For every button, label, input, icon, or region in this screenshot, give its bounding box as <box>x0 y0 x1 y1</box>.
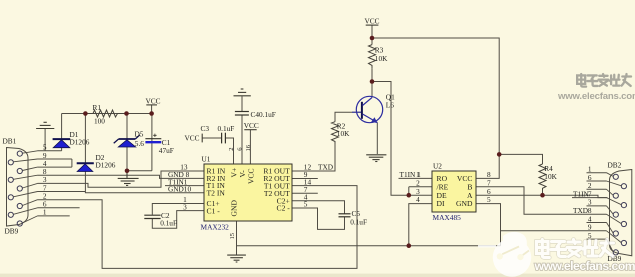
svg-text:10K: 10K <box>337 129 350 138</box>
wire DB2 row3 stub <box>587 205 607 207</box>
wire C1 riser <box>151 114 153 171</box>
resistor R3 10K <box>369 45 376 69</box>
svg-text:R1: R1 <box>93 103 102 112</box>
wire VCC3 stem to U1 pin16 <box>249 130 251 164</box>
U1 top rotated labels V+ V- VCC <box>229 168 255 184</box>
svg-text:MAX485: MAX485 <box>433 213 462 222</box>
wire DB2 row1 stub <box>587 172 607 174</box>
svg-text:VCC: VCC <box>365 17 380 26</box>
svg-text:10K: 10K <box>375 54 388 63</box>
wire RE-DE tie <box>408 187 410 195</box>
svg-text:GND: GND <box>456 199 473 208</box>
connector DB2 pin circles <box>613 174 626 255</box>
svg-text:D1206: D1206 <box>96 160 116 169</box>
wire tie row9-row4 <box>71 159 73 167</box>
wire U2 pin8 VCC riser <box>476 154 499 178</box>
svg-text:4: 4 <box>416 195 420 204</box>
svg-text:15: 15 <box>229 232 236 239</box>
wire D1 riser to top rail <box>61 114 63 151</box>
wire DB2 row7 label segment <box>572 197 608 199</box>
svg-text:0.1uF: 0.1uF <box>350 218 367 227</box>
wire R4 bottom to A row <box>542 190 544 195</box>
svg-text:C3: C3 <box>201 124 210 133</box>
capacitor C4 0.1uF <box>235 112 249 116</box>
connector DB1 pin stubs <box>13 151 37 223</box>
wire U1 pin15 stem to ground <box>236 221 238 255</box>
watermark elecfans bottom-right <box>478 232 635 277</box>
wire DB1 row7 to D2 riser <box>38 191 86 193</box>
wire ground riser from row5 <box>44 129 46 151</box>
ground D (Q1 emitter) <box>366 155 386 162</box>
svg-text:3: 3 <box>183 202 187 211</box>
wire DB1 row3 to U1 pin13 <box>38 171 205 187</box>
watermark CJK text 电子发烧友 <box>537 240 614 258</box>
wire ground B stem to C4 <box>241 96 243 111</box>
ground A (inverted, near DB1 pin5) <box>36 122 54 128</box>
junction dots (Q1/VCC/GND net) <box>370 36 545 248</box>
wire U2 pin6 A to DB2 pin7 <box>476 195 607 197</box>
wire DB1 row6 stub <box>38 207 80 209</box>
capacitor C5 0.1uF <box>339 214 351 217</box>
svg-text:5.6: 5.6 <box>135 139 144 148</box>
transistor Q1 <box>352 96 383 123</box>
bottom edge shading <box>0 274 635 277</box>
wire C2 bottom loop to U1 pin3 <box>152 211 204 229</box>
resistor R4 10K <box>539 164 546 190</box>
U1 right pin numbers <box>304 163 312 209</box>
svg-text:www.elecfans.com: www.elecfans.com <box>557 91 635 102</box>
svg-text:MAX232: MAX232 <box>201 223 230 232</box>
wire U1 pin12 TXD to R2 to Q1 base <box>292 144 335 172</box>
wire U1 pin1 row to C2 <box>152 204 204 215</box>
wire DB1 row4 <box>38 166 72 168</box>
svg-text:100: 100 <box>94 117 105 126</box>
svg-text:T1IN 1: T1IN 1 <box>400 170 422 179</box>
wire DB2 row2 stub <box>587 188 607 190</box>
svg-text:0.1uF: 0.1uF <box>160 219 177 228</box>
svg-text:D1206: D1206 <box>70 137 90 146</box>
IC U1 MAX232 body <box>204 164 292 221</box>
svg-text:VCC: VCC <box>244 121 259 130</box>
connector DB2 pin stubs <box>607 173 622 252</box>
wire C4 to U1 pin6 (V-) <box>241 115 243 164</box>
watermark logo disc <box>493 238 531 276</box>
svg-text:DB1: DB1 <box>3 137 17 146</box>
wire DB1 row8 to U1 pin8 (GND net) <box>38 175 205 178</box>
svg-text:GND10: GND10 <box>168 185 191 194</box>
U1 left pin labels <box>207 167 226 216</box>
VCC symbol 1 (top rail) <box>146 104 157 106</box>
wire U2 pin7 B to DB2 pin8 <box>476 187 607 214</box>
diode D2 (D1206) <box>77 163 94 171</box>
svg-text:1: 1 <box>43 208 47 217</box>
wire DB1 row5 to D1 anode <box>38 150 62 152</box>
U2 right pin numbers <box>487 170 491 204</box>
connector DB1 body <box>7 148 29 227</box>
DB2 pin numbers <box>588 165 592 240</box>
svg-text:47uF: 47uF <box>159 146 174 155</box>
svg-text:GND: GND <box>230 200 239 217</box>
wire DB1 row2 to bottom bus to U1 pin14 <box>38 186 358 269</box>
U2 left pin numbers <box>416 170 420 204</box>
svg-text:U2: U2 <box>433 161 442 170</box>
svg-text:L6: L6 <box>386 101 394 110</box>
VCC symbol 2 (above R3) <box>366 24 379 26</box>
wire C5 bottom loop to U1 pin5 <box>292 208 345 229</box>
wire DB2 row4 stub <box>587 222 607 224</box>
wire U1 pin9 stub <box>292 178 318 180</box>
svg-text:10K: 10K <box>544 172 557 181</box>
wire collector branch to U2 DE/RE <box>372 82 432 196</box>
connector DB2 body <box>610 170 632 256</box>
svg-text:V+: V+ <box>229 168 238 178</box>
wire Q1 emitter to ground <box>376 123 378 155</box>
svg-text:www.elecfans.com: www.elecfans.com <box>534 259 635 273</box>
svg-text:C40.1uF: C40.1uF <box>251 110 276 119</box>
svg-text:C1 -: C1 - <box>207 206 221 215</box>
watermark CJK text shadow <box>537 240 614 258</box>
resistor R2 10K <box>332 122 339 144</box>
U2 left pin labels <box>437 174 449 208</box>
capacitor C3 0.1uF <box>222 133 226 144</box>
svg-text:DB2: DB2 <box>608 161 622 170</box>
wire GND riser to DB2 pin9 <box>501 230 607 232</box>
capacitor C2 0.1uF <box>144 215 160 218</box>
zener diode D5 (5.6V) <box>114 135 140 147</box>
U1 top pin numbers rotated 2 6 16 <box>228 144 252 151</box>
wire R3 bottom to Q1 collector <box>371 69 373 98</box>
svg-text:U1: U1 <box>202 155 211 164</box>
wire VCC2 stem to R3 <box>371 25 373 44</box>
IC U2 MAX485 body <box>432 171 476 212</box>
wire U1 pin4 to C5 top <box>292 201 345 214</box>
wire D2 riser and GND10 wire to U1 pin10 <box>85 114 204 193</box>
wire C3 to U1 pin2 (V+) <box>226 138 234 164</box>
junction dots top rail <box>83 111 154 173</box>
diode D1 (D1206) <box>53 139 71 148</box>
svg-text:D5: D5 <box>135 130 144 139</box>
wire U2 pin4 DI to GND bus <box>409 204 432 246</box>
svg-text:0.1uF: 0.1uF <box>218 124 235 133</box>
connector DB1 pin circles <box>8 151 22 226</box>
svg-text:T1IN: T1IN <box>573 189 590 198</box>
svg-text:5: 5 <box>487 195 491 204</box>
wire D5 riser <box>126 114 128 171</box>
wire DB2 row5 stub <box>587 238 607 240</box>
wire VCC1 stem <box>151 105 153 113</box>
wire U1 pin7 stub <box>292 192 318 194</box>
DB1 pin numbers <box>43 143 47 217</box>
svg-text:VCC: VCC <box>146 96 161 105</box>
wire T1IN stub U2 pin1 <box>399 177 433 179</box>
svg-text:C2 -: C2 - <box>277 204 291 213</box>
wire U2 pin2 RE row <box>409 186 432 188</box>
resistor R1 <box>85 110 126 117</box>
wire DB2 row6 stub <box>587 180 607 182</box>
ground (mid, D5/C1) <box>118 171 139 186</box>
U1 right pin labels <box>263 167 290 213</box>
wire VCC to R4 top <box>499 154 542 164</box>
wire U2 pin5 GND riser <box>476 204 501 246</box>
capacitor C1 47uF polarized <box>145 134 161 143</box>
wire ground link D5-C1 <box>127 170 152 172</box>
wire T1IN stub U1 pin11 <box>165 185 204 187</box>
watermark top-right CJK 电子发烧友 (gray) <box>577 74 631 87</box>
svg-text:T2 IN: T2 IN <box>207 188 226 197</box>
wire DB1 row1 stub <box>38 215 70 217</box>
wire top rail <box>62 113 152 115</box>
watermark logo arm <box>478 245 496 247</box>
ground B (inverted, above C4) <box>234 89 251 96</box>
svg-text:TXD: TXD <box>318 163 333 172</box>
ground C (U1 pin15) <box>227 255 246 262</box>
svg-text:16: 16 <box>245 144 252 151</box>
wire DB1 row9 <box>38 158 72 160</box>
U2 right pin labels <box>456 174 473 208</box>
svg-text:VCC: VCC <box>247 168 256 184</box>
wire VCC4 to C3 <box>202 137 221 139</box>
wire VCC rail to far right <box>372 38 499 154</box>
svg-text:DI: DI <box>437 199 445 208</box>
svg-text:VCC: VCC <box>185 134 200 143</box>
svg-text:DB9: DB9 <box>5 227 19 236</box>
VCC symbol 3 (U1 pin16) <box>244 129 256 131</box>
wire GND bus <box>237 245 501 247</box>
svg-text:2: 2 <box>228 148 235 151</box>
svg-text:TXD: TXD <box>573 206 588 215</box>
watermark logo hook <box>503 232 527 247</box>
svg-text:5: 5 <box>304 200 308 209</box>
